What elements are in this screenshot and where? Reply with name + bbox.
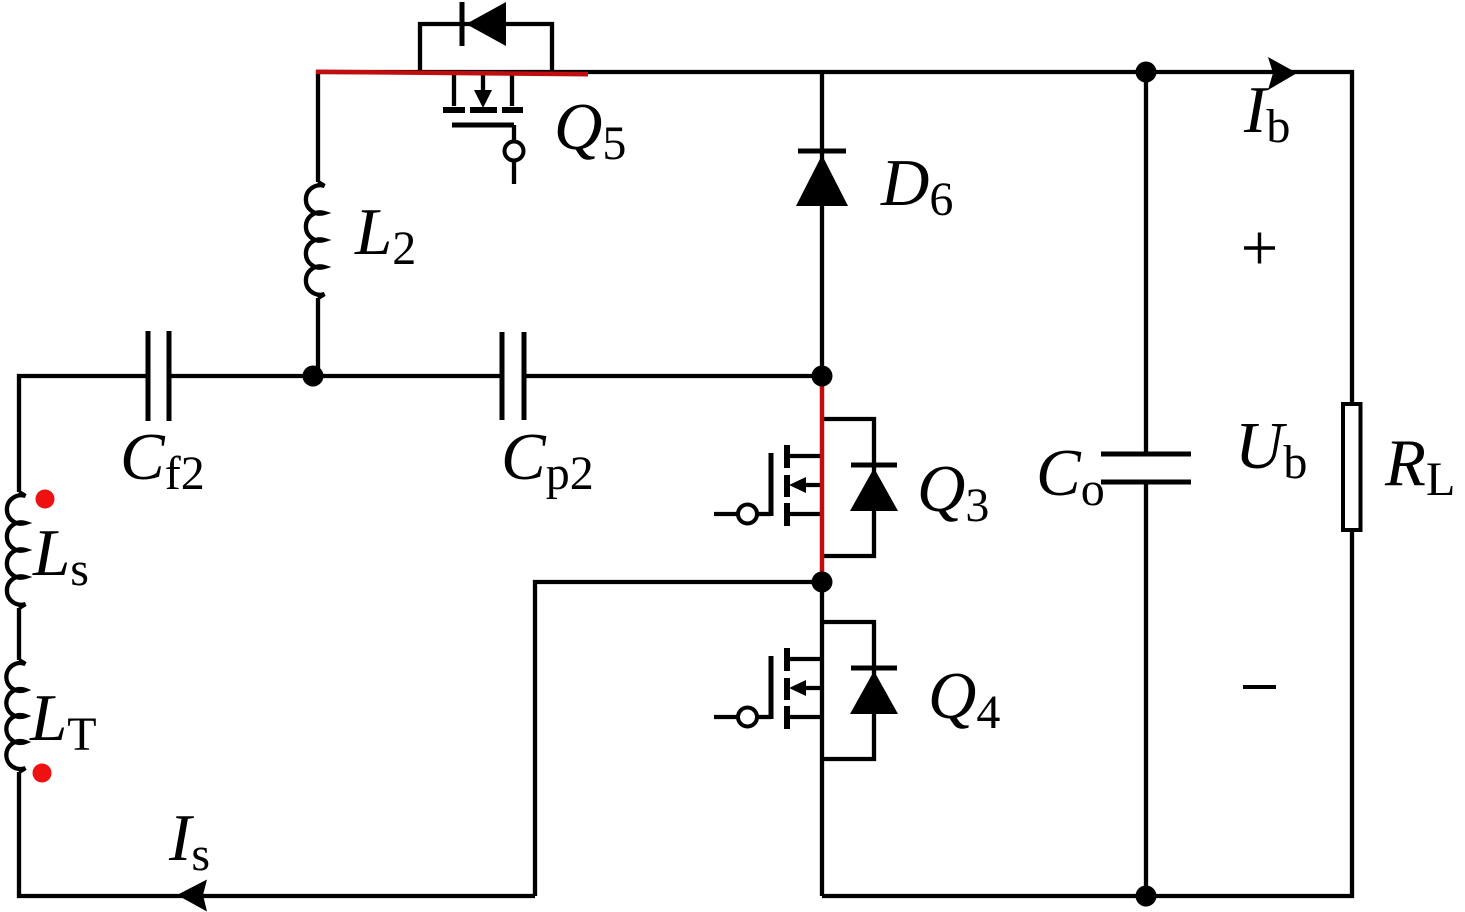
node Q3 source / Q4 drain bbox=[812, 572, 833, 593]
capacitor Co bbox=[1144, 72, 1148, 452]
current arrow Ib bbox=[1268, 57, 1297, 90]
wire Cf2 to Cp2 bbox=[170, 374, 502, 378]
diode D6 bbox=[798, 149, 846, 154]
node Co top bbox=[1136, 62, 1157, 83]
polarity dot bottom (red) bbox=[33, 764, 52, 783]
wire RL bottom to lower rail bbox=[822, 528, 1352, 896]
capacitor Cf2 bbox=[148, 331, 169, 421]
svg-text:Co: Co bbox=[1036, 436, 1105, 516]
svg-text:Q4: Q4 bbox=[928, 659, 1000, 739]
svg-text:Cp2: Cp2 bbox=[501, 420, 594, 500]
transistor Q5 bbox=[443, 74, 524, 184]
minus sign bbox=[1243, 685, 1276, 689]
polarity dot top (red) bbox=[36, 490, 55, 509]
resistor RL bbox=[1343, 404, 1361, 530]
inductor LT bbox=[6, 660, 25, 772]
svg-text:Cf2: Cf2 bbox=[120, 420, 205, 500]
svg-text:Ub: Ub bbox=[1235, 409, 1307, 489]
svg-text:LT: LT bbox=[29, 681, 97, 761]
node Co bottom bbox=[1136, 886, 1157, 907]
inductor L2 bbox=[306, 182, 325, 298]
diode D6 branch wire bbox=[820, 72, 824, 376]
svg-text:L2: L2 bbox=[354, 195, 416, 275]
transistor Q3 bbox=[714, 419, 898, 556]
current arrow Is bbox=[177, 880, 207, 912]
node D6 anode / Q3 drain bbox=[812, 366, 833, 387]
transistor Q4 bbox=[714, 622, 898, 759]
inductor Ls bbox=[7, 492, 26, 608]
svg-text:Q3: Q3 bbox=[917, 452, 989, 532]
wire L2 to node bbox=[316, 298, 320, 376]
wire mid-left + left column top bbox=[19, 376, 146, 492]
wire (red highlighted) through Q3 bbox=[820, 377, 825, 582]
svg-text:D6: D6 bbox=[880, 146, 953, 226]
wire left bottom bbox=[19, 772, 535, 896]
wire Ls to LT bbox=[17, 608, 21, 660]
svg-text:Ls: Ls bbox=[32, 516, 89, 596]
wire bottom mid up to node bbox=[535, 582, 822, 896]
svg-text:Ib: Ib bbox=[1243, 73, 1290, 153]
node L2/Cf2/Cp2 junction bbox=[303, 366, 324, 387]
wire Q4 drain to bottom bbox=[820, 582, 824, 896]
svg-text:RL: RL bbox=[1384, 426, 1455, 506]
svg-text:Q5: Q5 bbox=[554, 90, 626, 170]
wire (red highlighted) top bbox=[316, 72, 588, 74]
wire top-left corner down to L2 bbox=[316, 70, 320, 182]
svg-text:Is: Is bbox=[168, 801, 210, 881]
capacitor Cp2 bbox=[502, 332, 524, 420]
plus sign bbox=[1244, 233, 1275, 264]
diode of Q5 (anti-parallel) bbox=[420, 24, 552, 72]
wire Cp2 to node D6 bbox=[524, 374, 822, 378]
wire top rail and right side down to RL bbox=[316, 72, 1352, 404]
